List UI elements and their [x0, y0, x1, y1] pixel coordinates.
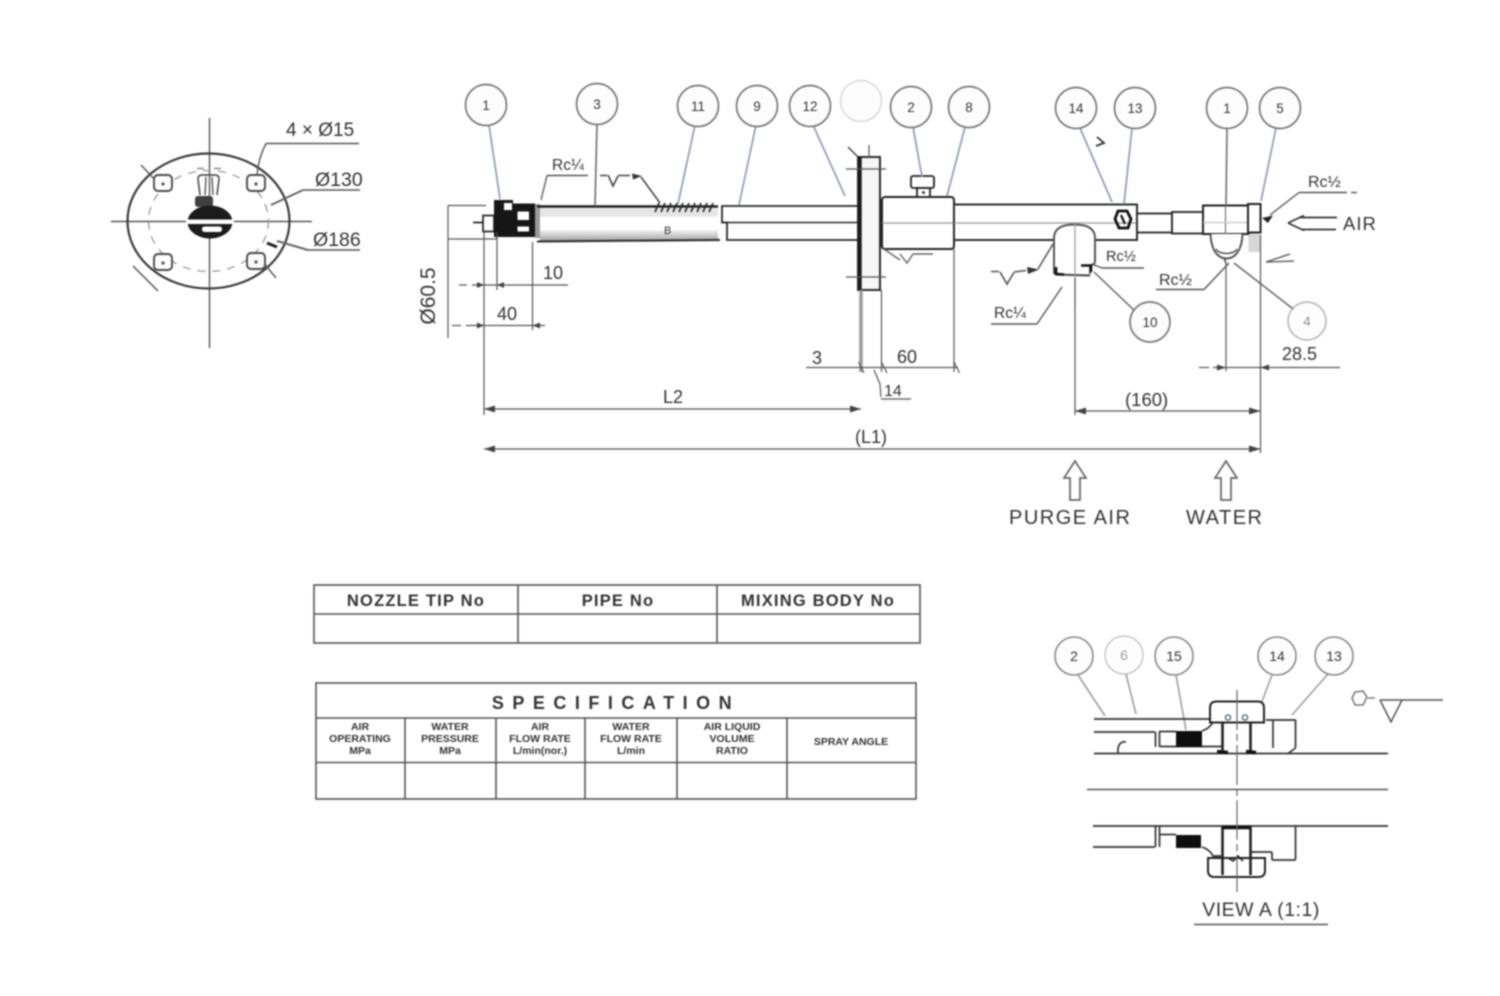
svg-text:1: 1 [1223, 101, 1231, 116]
svg-text:28.5: 28.5 [1282, 344, 1317, 364]
svg-text:6: 6 [1120, 647, 1128, 663]
svg-text:2: 2 [1070, 648, 1078, 664]
svg-text:FLOW RATE: FLOW RATE [509, 733, 571, 745]
svg-text:Rc½: Rc½ [1106, 249, 1136, 265]
svg-text:MPa: MPa [439, 745, 461, 757]
svg-text:2: 2 [907, 100, 915, 115]
svg-text:L2: L2 [663, 387, 683, 407]
svg-text:8: 8 [965, 100, 973, 115]
svg-text:MPa: MPa [349, 745, 371, 757]
svg-text:WATER: WATER [1186, 507, 1264, 529]
svg-text:PIPE No: PIPE No [582, 592, 655, 610]
svg-text:1: 1 [482, 98, 490, 113]
svg-text:OPERATING: OPERATING [329, 733, 391, 745]
svg-text:4: 4 [1303, 314, 1311, 329]
svg-text:3: 3 [812, 348, 822, 368]
svg-text:AIR: AIR [531, 721, 550, 733]
svg-text:Ø130: Ø130 [315, 169, 363, 191]
svg-text:(L1): (L1) [855, 427, 887, 447]
svg-text:14: 14 [1068, 101, 1084, 116]
svg-text:L/min: L/min [617, 745, 645, 757]
svg-text:14: 14 [1269, 648, 1285, 664]
svg-text:(160): (160) [1125, 389, 1168, 410]
svg-text:Rc¼: Rc¼ [994, 305, 1027, 322]
svg-text:4 × Ø15: 4 × Ø15 [286, 120, 354, 141]
svg-text:AIR: AIR [351, 721, 370, 733]
svg-text:SPRAY ANGLE: SPRAY ANGLE [814, 736, 888, 748]
svg-text:Rc½: Rc½ [1159, 272, 1192, 289]
svg-text:9: 9 [753, 99, 761, 114]
svg-text:Rc¼: Rc¼ [552, 157, 585, 174]
svg-text:PURGE AIR: PURGE AIR [1009, 507, 1131, 529]
svg-text:Rc½: Rc½ [1308, 174, 1341, 191]
svg-text:13: 13 [1127, 101, 1142, 116]
svg-text:FLOW RATE: FLOW RATE [600, 733, 662, 745]
svg-text:VOLUME: VOLUME [710, 733, 755, 745]
svg-text:11: 11 [691, 99, 705, 114]
svg-text:MIXING BODY No: MIXING BODY No [741, 592, 895, 610]
svg-text:AIR: AIR [1343, 213, 1377, 234]
svg-text:10: 10 [1142, 315, 1157, 330]
svg-text:13: 13 [1326, 648, 1342, 664]
svg-text:12: 12 [802, 99, 817, 114]
svg-text:L/min(nor.): L/min(nor.) [513, 745, 567, 757]
svg-text:3: 3 [593, 97, 601, 112]
svg-text:VIEW A (1:1): VIEW A (1:1) [1202, 899, 1320, 921]
svg-text:14: 14 [884, 383, 902, 400]
svg-text:PRESSURE: PRESSURE [421, 733, 479, 745]
svg-text:5: 5 [1276, 101, 1284, 116]
svg-text:NOZZLE TIP No: NOZZLE TIP No [347, 592, 485, 610]
svg-text:10: 10 [543, 263, 563, 283]
svg-text:AIR LIQUID: AIR LIQUID [704, 721, 761, 733]
svg-text:60: 60 [897, 347, 917, 367]
svg-text:Ø186: Ø186 [313, 229, 361, 251]
svg-text:40: 40 [497, 304, 517, 324]
svg-text:RATIO: RATIO [716, 745, 748, 757]
svg-text:Ø60.5: Ø60.5 [417, 267, 440, 324]
svg-text:SPECIFICATION: SPECIFICATION [492, 693, 740, 713]
svg-text:B: B [664, 225, 671, 237]
svg-text:WATER: WATER [431, 721, 469, 733]
svg-text:15: 15 [1166, 648, 1182, 664]
svg-text:WATER: WATER [612, 721, 650, 733]
